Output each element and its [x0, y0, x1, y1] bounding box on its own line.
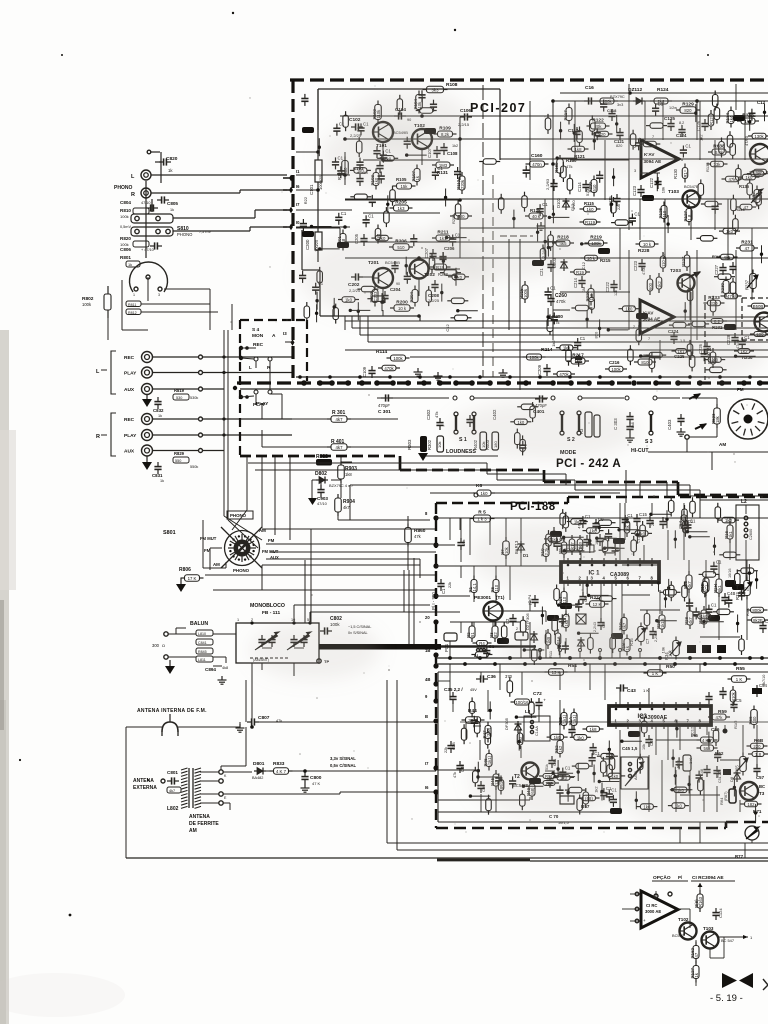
- resistor R108 3k3: [427, 86, 444, 93]
- svg-text:0,5mV: 0,5mV: [120, 225, 131, 229]
- ground d802: [308, 498, 317, 505]
- svg-text:3,3v S/SINAL: 3,3v S/SINAL: [330, 756, 356, 761]
- svg-text:L2: L2: [741, 499, 747, 505]
- resistor R47 330: [485, 726, 491, 739]
- wire phono R to PCI-207: [151, 192, 240, 194]
- wires mid-right: [659, 560, 661, 580]
- svg-text:T103: T103: [703, 926, 714, 931]
- svg-text:DE FERRITE: DE FERRITE: [189, 821, 219, 827]
- svg-text:20: 20: [425, 615, 430, 620]
- filler components PCI-188 det: [477, 762, 479, 780]
- capacitor C16: [588, 97, 590, 104]
- svg-text:R801: R801: [120, 255, 131, 260]
- label PC13091: [562, 545, 594, 552]
- wires S801 to PCI-188: [262, 528, 436, 530]
- balun coils: [196, 630, 213, 636]
- svg-text:L: L: [131, 174, 135, 180]
- resistor R206 510: [393, 244, 409, 251]
- capacitor C108: [440, 147, 447, 149]
- svg-text:1k: 1k: [170, 208, 174, 212]
- vertical wires from jacks: [223, 330, 225, 500]
- svg-text:L: L: [249, 365, 252, 370]
- wire grid 188: [436, 565, 560, 567]
- svg-text:R4: R4: [479, 641, 485, 646]
- resistor 2k2 1/2w: [654, 98, 668, 104]
- svg-text:3: 3: [158, 293, 160, 297]
- resistor R217 150: [571, 358, 585, 364]
- wire s1 row: [377, 397, 449, 399]
- svg-text:R134: R134: [725, 112, 730, 123]
- filler components PCI-188 ic1row: [541, 607, 543, 625]
- svg-text:AUX: AUX: [124, 449, 135, 455]
- svg-text:1k0: 1k0: [587, 207, 595, 212]
- switch S4 contacts lower: [254, 390, 258, 394]
- bus stubs: [539, 652, 541, 658]
- ceramic filter X1: [576, 614, 586, 624]
- svg-text:BC547: BC547: [672, 933, 684, 938]
- svg-text:510k: 510k: [586, 188, 590, 196]
- diode D1 BAR13: [520, 541, 522, 553]
- svg-text:10 k: 10 k: [643, 242, 652, 247]
- svg-text:P/: P/: [678, 875, 683, 880]
- svg-text:C1: C1: [341, 211, 347, 216]
- capacitor C102 2,2/25: [355, 123, 357, 130]
- resistor R46 1k1: [486, 754, 492, 767]
- svg-text:FM: FM: [268, 538, 275, 543]
- svg-text:1: 1: [615, 719, 618, 724]
- svg-text:I0: I0: [296, 220, 300, 225]
- svg-text:2,2/63: 2,2/63: [545, 178, 550, 190]
- diode D3: [580, 637, 582, 649]
- resistor R135 47k: [726, 176, 739, 182]
- wire L802 lower to pci188: [223, 793, 340, 795]
- svg-text:1 K: 1 K: [736, 677, 743, 682]
- resistor 100k: [600, 98, 614, 104]
- svg-text:C1: C1: [339, 122, 345, 127]
- filler components PCI-188 mid: [579, 632, 599, 634]
- filler extra 188bot: [610, 808, 622, 814]
- capacitor C106: [464, 113, 466, 120]
- junction dots bus188: [448, 656, 452, 660]
- svg-text:DF305: DF305: [504, 717, 509, 730]
- wire d801 run: [223, 771, 252, 773]
- svg-text:R125: R125: [658, 207, 663, 218]
- svg-text:PLAY: PLAY: [124, 433, 137, 439]
- resistor R57 68: [583, 795, 596, 801]
- wire R301 run: [262, 418, 331, 420]
- svg-text:L810: L810: [198, 632, 206, 636]
- tuning cap 1: [258, 639, 265, 641]
- bus row 658: [436, 657, 768, 659]
- svg-text:C806: C806: [120, 247, 131, 252]
- wire verticals 188b: [469, 518, 471, 555]
- resistor R136 1k8: [741, 118, 755, 124]
- capacitor C7 2,2/63: [649, 631, 656, 633]
- svg-text:C302: C302: [426, 409, 431, 420]
- trimpot R65: [740, 757, 747, 772]
- wire top row 518: [436, 517, 768, 519]
- svg-text:10k: 10k: [461, 540, 466, 546]
- resistor R109: [438, 131, 453, 137]
- svg-text:R 301: R 301: [332, 410, 346, 416]
- resistor R17: [577, 539, 583, 551]
- resistor R134: [728, 111, 734, 124]
- trimmer below pci188: [745, 826, 759, 840]
- svg-text:PCI-207: PCI-207: [470, 101, 526, 115]
- svg-text:PHONO: PHONO: [114, 185, 132, 191]
- pin PCI-188 I6: [433, 789, 438, 794]
- filler extra 188bot2: [672, 803, 685, 809]
- resistor R14 110: [561, 592, 567, 605]
- svg-text:130k: 130k: [754, 134, 764, 139]
- filler components PCI-188 top: [560, 513, 566, 525]
- wire jack to switch: [153, 418, 200, 420]
- capacitor C57: [753, 768, 760, 770]
- pin PCI-188 9: [433, 698, 438, 703]
- svg-text:REC: REC: [253, 342, 264, 348]
- bus solid row2: [240, 388, 768, 390]
- svg-text:C805: C805: [167, 201, 178, 206]
- svg-text:- 5. 19 -: - 5. 19 -: [710, 993, 743, 1004]
- crease line 2: [492, 175, 494, 377]
- svg-text:R811: R811: [128, 303, 136, 307]
- svg-text:C124: C124: [718, 908, 723, 918]
- svg-text:R 5: R 5: [478, 510, 486, 516]
- wires S801 diagonals from jacks: [223, 500, 225, 516]
- trimpot R33 30k: [744, 581, 751, 596]
- wire long rows PCI-207: [340, 115, 768, 117]
- capacitor C401 470pF: [539, 395, 541, 402]
- resistor R16: [727, 525, 733, 539]
- resistor R127 1,8: [686, 209, 692, 222]
- capacitor C9: [592, 523, 599, 525]
- resistor R19x: [434, 264, 447, 270]
- svg-text:HI-CUT: HI-CUT: [631, 448, 649, 454]
- phono jack R: [141, 188, 151, 198]
- resistor R120 510: [591, 180, 597, 193]
- svg-text:530k: 530k: [190, 396, 198, 400]
- transistor right edge 2: [755, 313, 768, 332]
- transistor T2 BC548B: [522, 763, 539, 780]
- svg-text:100k: 100k: [611, 367, 621, 372]
- pin I1: [289, 175, 293, 181]
- resistor R202: [372, 290, 378, 303]
- svg-text:47k: 47k: [414, 534, 422, 539]
- resistor R102: [375, 105, 382, 120]
- transistor T3 BC547B: [740, 782, 758, 800]
- antenna loop wire: [126, 726, 162, 728]
- svg-text:BA482: BA482: [252, 776, 263, 780]
- dash-dot vertical right: [704, 295, 706, 380]
- left margin dark strip: [0, 600, 4, 730]
- capacitor C800 47k: [301, 776, 308, 778]
- svg-text:R55: R55: [736, 666, 745, 672]
- wire d802 area: [340, 457, 342, 465]
- long verticals left: [246, 457, 248, 510]
- filler components PCI-188 low3: [599, 781, 619, 783]
- inner box left channel: [318, 88, 500, 90]
- resistor R112: [459, 176, 465, 190]
- svg-text:530: 530: [176, 396, 182, 400]
- wire rows left: [296, 151, 318, 153]
- svg-text:C43: C43: [627, 688, 636, 694]
- tuning cap 2: [290, 639, 297, 641]
- svg-text:3000 AE: 3000 AE: [645, 909, 661, 914]
- paper specks: [447, 236, 448, 237]
- svg-text:7: 7: [639, 576, 642, 581]
- filler components PCI-207 t-row: [316, 292, 318, 310]
- resistor R187: [754, 190, 760, 203]
- wire switch run: [202, 418, 292, 420]
- wire jack to switch: [153, 434, 200, 436]
- capacitor C4 10k: [579, 596, 586, 598]
- dashed sub-box right edge: [741, 298, 743, 340]
- filler components PCI-188 det2: [509, 780, 516, 782]
- resistor R215 10k: [585, 255, 598, 261]
- resistor R2 51: [469, 626, 475, 638]
- resistor R234: [710, 352, 716, 364]
- svg-text:BALUN: BALUN: [190, 621, 208, 627]
- trimpot R237: [750, 274, 757, 289]
- resistor R50 1k: [648, 670, 663, 677]
- resistor R30: [703, 578, 709, 592]
- svg-text:C5: C5: [736, 698, 742, 703]
- svg-text:1k2: 1k2: [551, 339, 556, 346]
- svg-text:PHONO: PHONO: [177, 232, 193, 237]
- resistor R204: [412, 290, 418, 303]
- coil L1: [477, 649, 480, 652]
- svg-text:C820: C820: [166, 156, 178, 162]
- capacitor C118: [608, 113, 615, 115]
- resistor 130: [517, 733, 523, 745]
- filter F2: [515, 632, 528, 640]
- svg-text:+: +: [643, 918, 646, 923]
- svg-text:PE3001: PE3001: [474, 595, 491, 601]
- svg-text:R219: R219: [590, 235, 602, 241]
- wire monobloco top to pci188: [309, 612, 311, 623]
- svg-text:C1: C1: [550, 285, 556, 290]
- filler components PCI-207 left2: [369, 199, 376, 201]
- switch S4 contacts upper: [254, 357, 258, 361]
- capacitor C39: [477, 785, 484, 787]
- svg-text:C114: C114: [577, 182, 582, 192]
- svg-text:R3B: R3B: [745, 608, 750, 616]
- dashed border S4 notch left: [239, 320, 241, 457]
- svg-text:100/16: 100/16: [515, 700, 529, 705]
- svg-text:BC 547: BC 547: [721, 938, 734, 943]
- svg-text:1k0: 1k0: [725, 518, 733, 523]
- resistor R131 1M3: [436, 162, 450, 168]
- filler extra 207lowmid: [350, 309, 370, 311]
- resistor 56k h: [701, 745, 714, 751]
- svg-text:C832: C832: [153, 408, 164, 413]
- resistor 1k8b: [587, 726, 600, 732]
- svg-text:PCI - 242 A: PCI - 242 A: [556, 458, 621, 470]
- resistor R1 4k5: [721, 254, 734, 260]
- svg-text:R829: R829: [174, 451, 185, 456]
- svg-text:CI RC: CI RC: [646, 903, 657, 908]
- svg-text:EXTERNA: EXTERNA: [133, 785, 157, 791]
- resistor R112b: [708, 114, 714, 126]
- svg-text:C841: C841: [198, 641, 207, 645]
- svg-text:FB - 111: FB - 111: [262, 610, 280, 616]
- capacitor C831: [154, 466, 161, 468]
- svg-text:2: 2: [251, 618, 253, 622]
- svg-text:47k: 47k: [434, 412, 439, 418]
- transistor T203: [678, 275, 695, 292]
- op-amp U1 3094AE: [641, 140, 679, 178]
- resistor R51 223: [543, 774, 555, 779]
- switch S1 loudness block: [420, 436, 427, 452]
- pin stubs: [283, 177, 290, 179]
- resistor R1b3 vertical: [697, 894, 703, 908]
- svg-text:3k3: 3k3: [432, 88, 440, 93]
- filler components PCI-207 upper-left: [312, 226, 332, 228]
- inner dash sub-box: [500, 235, 533, 237]
- resistor R107: [414, 169, 420, 182]
- resistor R638 6,4k: [712, 149, 726, 155]
- resistor R54 13k: [549, 669, 564, 676]
- svg-text:10/1,5: 10/1,5: [558, 821, 569, 825]
- ground pci207 a: [417, 368, 419, 372]
- svg-text:C 301: C 301: [378, 409, 391, 415]
- pin I0: [289, 224, 293, 230]
- resistor R1A 1k1: [571, 713, 577, 726]
- svg-text:R108: R108: [446, 82, 458, 88]
- svg-text:R3: R3: [489, 632, 494, 638]
- capacitor C48: [703, 769, 710, 771]
- svg-text:R820: R820: [120, 236, 131, 241]
- svg-text:R845: R845: [198, 650, 207, 654]
- filter PC1: [444, 633, 457, 641]
- resistor R829 550k: [173, 457, 189, 463]
- svg-text:47/10: 47/10: [317, 501, 328, 506]
- svg-text:+ 47/10: + 47/10: [141, 248, 154, 252]
- capacitor C832: [154, 401, 161, 403]
- resistor R125 110: [661, 206, 667, 219]
- crystal C-1: [560, 796, 574, 804]
- capacitor C807 47k: [251, 718, 253, 725]
- svg-text:AM: AM: [189, 828, 197, 834]
- ground d103: [540, 222, 542, 226]
- svg-text:AM: AM: [213, 562, 220, 567]
- filler components PCI-207 far right: [708, 357, 721, 363]
- resistor R8: [551, 531, 557, 543]
- svg-text:17 K: 17 K: [188, 576, 197, 581]
- svg-text:R112: R112: [456, 179, 461, 190]
- capacitor C4x: [568, 729, 575, 731]
- tuning gang bar: [319, 644, 441, 650]
- resistor R231 47: [740, 245, 754, 251]
- svg-text:R6: R6: [490, 586, 495, 592]
- L802 terminals: [219, 770, 223, 774]
- capacitor C54: [681, 515, 687, 529]
- wire switch run: [202, 450, 224, 452]
- svg-text:C16: C16: [585, 85, 594, 91]
- svg-text:R127: R127: [690, 967, 695, 978]
- resistor R180 47k: [557, 159, 564, 173]
- resistor R185: [660, 256, 666, 268]
- wire switch run: [202, 434, 292, 436]
- dark bead: [725, 580, 736, 587]
- wires below 188: [679, 828, 681, 843]
- resistor 1,8 h: [752, 752, 764, 757]
- wire corridor verticals: [344, 316, 346, 321]
- wire r860: [407, 516, 409, 527]
- resistor R2H: [716, 579, 722, 593]
- svg-text:R812: R812: [128, 311, 137, 315]
- svg-text:1: 1: [133, 293, 135, 297]
- svg-text:L811: L811: [198, 658, 206, 662]
- resistor R1B: [569, 539, 575, 551]
- resistor R129 820: [680, 107, 696, 114]
- resistor R230: [723, 281, 729, 294]
- resistor R200 10k: [394, 305, 410, 312]
- svg-text:B: B: [425, 714, 428, 719]
- svg-text:300: 300: [152, 643, 160, 648]
- pin I3: [291, 339, 295, 345]
- svg-text:22k: 22k: [444, 747, 448, 753]
- svg-text:1B: 1B: [425, 648, 430, 653]
- junction dots S4: [239, 346, 243, 350]
- monobloco bottom wires: [236, 662, 319, 664]
- svg-text:PLAY: PLAY: [124, 371, 137, 377]
- ground c807: [239, 724, 241, 728]
- svg-text:D801: D801: [253, 761, 265, 767]
- capacitor C38 47k: [456, 765, 463, 767]
- svg-text:C122: C122: [649, 177, 654, 188]
- filler components PCI-242A mid: [514, 419, 527, 425]
- svg-text:C403: C403: [667, 419, 672, 430]
- svg-text:I6: I6: [425, 785, 429, 790]
- svg-text:L802: L802: [167, 806, 179, 812]
- pin PCI-188 8: [433, 515, 438, 520]
- svg-text:C1: C1: [711, 603, 717, 608]
- svg-text:1k0: 1k0: [577, 735, 585, 740]
- svg-text:1k0: 1k0: [726, 229, 734, 234]
- wire under border: [560, 92, 768, 94]
- wire s2 row: [509, 397, 548, 399]
- capacitor C208 2,2/25: [431, 284, 438, 286]
- inner box fm detector: [438, 671, 768, 673]
- ground balun: [169, 660, 171, 666]
- resistor R904 4k7: [335, 498, 342, 512]
- op-amp option CI RC3000: [641, 891, 678, 928]
- wire switch run: [202, 356, 292, 358]
- resistor F1A: [555, 633, 561, 645]
- svg-text:9: 9: [425, 694, 428, 699]
- resistor R67 dark: [729, 789, 736, 803]
- wires selector area: [121, 280, 123, 330]
- svg-text:E: E: [224, 796, 227, 800]
- ground R806: [181, 577, 184, 579]
- wires 242a-188 verticals: [625, 470, 627, 503]
- filler components PCI-188 topright: [684, 524, 691, 526]
- svg-text:R162: R162: [690, 947, 695, 958]
- resistor 182: [745, 801, 758, 807]
- dashed border PCI-207/242A shared: [237, 381, 768, 384]
- svg-text:R237: R237: [745, 279, 750, 290]
- svg-text:R77: R77: [735, 854, 744, 859]
- capacitor C6: [597, 622, 604, 624]
- svg-text:C109: C109: [362, 366, 367, 377]
- svg-text:C160: C160: [531, 153, 543, 159]
- resistor 820: [596, 131, 609, 137]
- svg-text:R1A: R1A: [568, 717, 573, 726]
- svg-text:S801: S801: [163, 530, 176, 536]
- wires phono-pci188 link: [310, 529, 312, 623]
- svg-text:R231: R231: [741, 240, 753, 246]
